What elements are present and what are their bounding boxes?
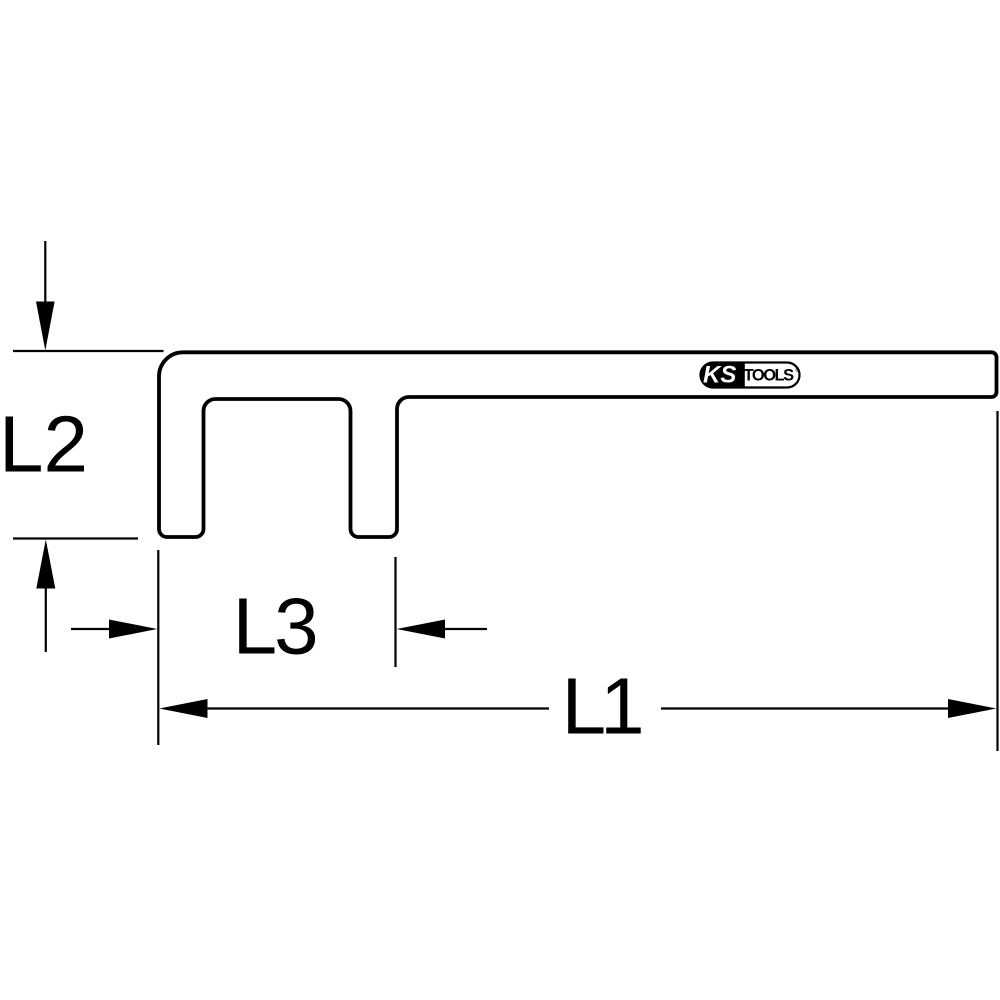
extension line L3 right vertical xyxy=(394,557,396,667)
logo left black segment xyxy=(701,363,745,388)
arrow down (L2 top) xyxy=(36,241,55,351)
extension line L3 left vertical xyxy=(157,550,159,745)
svg-text:L2: L2 xyxy=(0,400,88,489)
arrow up (L2 bottom) xyxy=(36,540,55,653)
svg-text:®: ® xyxy=(795,367,799,374)
tool outline xyxy=(159,352,997,537)
svg-text:L3: L3 xyxy=(233,582,316,671)
svg-text:TOOLS: TOOLS xyxy=(744,367,795,385)
svg-text:L1: L1 xyxy=(562,661,641,750)
arrow right (L3 left) xyxy=(71,620,157,639)
extension line bottom-left (L2 lower) xyxy=(13,537,138,539)
arrow right (L1 right end) xyxy=(948,699,996,718)
extension line top (L2 upper) xyxy=(13,350,164,352)
KS TOOLS logo xyxy=(701,361,800,388)
arrow left (L3 right) xyxy=(397,620,487,639)
arrow left (L1 left end) xyxy=(159,699,207,718)
dimension line L1 right segment xyxy=(661,707,950,709)
svg-text:KS: KS xyxy=(703,361,736,388)
dimension line L1 left segment xyxy=(206,707,549,709)
extension line L1 right vertical xyxy=(996,411,998,751)
logo pill outline xyxy=(701,363,800,388)
